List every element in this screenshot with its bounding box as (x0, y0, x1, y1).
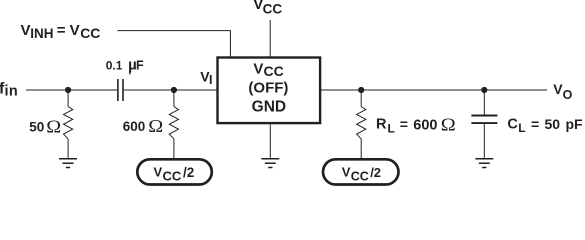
resistor R2 600 ohm zigzag (169, 107, 178, 139)
svg-text:V: V (253, 60, 263, 77)
svg-text:=: = (400, 116, 408, 132)
wire: output from box to V_O (321, 89, 547, 91)
wire: input from f_in to capacitor C1 (26, 89, 117, 91)
svg-text:Ω: Ω (441, 116, 456, 135)
node: junction dot at 600 ohm tap (171, 87, 177, 93)
node: junction dot at C_L tap (481, 87, 487, 93)
wire: down to resistor R1 (50 ohm) (67, 90, 69, 107)
op box U1 (switch, OFF) (218, 58, 321, 124)
wire: down to capacitor C_L (483, 90, 485, 115)
svg-text:V: V (342, 165, 351, 180)
svg-text:GND: GND (252, 98, 286, 115)
svg-text:C: C (507, 116, 518, 132)
svg-text:L: L (388, 121, 395, 135)
svg-text:Ω: Ω (148, 117, 163, 136)
svg-text:F: F (136, 59, 144, 73)
svg-text:pF: pF (566, 116, 584, 132)
svg-text:0.1: 0.1 (106, 59, 123, 73)
wire: V_INH to box top (118, 31, 231, 57)
svg-text:O: O (563, 88, 573, 102)
svg-text:CC: CC (263, 1, 283, 16)
wire: capacitor C_L to ground (483, 124, 485, 158)
wire: down to resistor R2 (600 ohm) (173, 90, 175, 107)
source oval VCC/2 (right) (323, 159, 399, 184)
capacitor C1 0.1uF plates (117, 79, 119, 101)
svg-text:L: L (518, 121, 525, 135)
source oval VCC/2 (left) (137, 159, 212, 184)
svg-text:V: V (21, 22, 31, 39)
wire: down to resistor R_L (360, 90, 362, 107)
wire: resistor R1 to ground (67, 139, 69, 158)
svg-text:50: 50 (29, 119, 44, 134)
ground under C_L (475, 159, 493, 168)
svg-text:50: 50 (545, 116, 561, 132)
wire: box GND pin down (269, 124, 271, 158)
resistor R1 50 ohm zigzag (64, 107, 73, 139)
svg-text:(OFF): (OFF) (248, 79, 288, 96)
svg-text:in: in (5, 83, 19, 99)
svg-text:/2: /2 (183, 165, 194, 180)
svg-text:600: 600 (413, 118, 437, 134)
ground under R1 (59, 159, 77, 168)
svg-text:/2: /2 (370, 165, 381, 180)
svg-text:CC: CC (80, 25, 100, 41)
ground under box (261, 159, 279, 168)
node: junction dot at R_L tap (358, 87, 364, 93)
svg-text:CC: CC (163, 169, 182, 184)
wire: Vcc supply down to box top (269, 20, 271, 56)
svg-text:=: = (57, 22, 66, 39)
resistor R_L zigzag (357, 107, 366, 139)
svg-text:V: V (154, 165, 163, 180)
svg-text:=: = (531, 116, 539, 132)
svg-text:INH: INH (30, 26, 53, 41)
node: junction dot at 50 ohm tap (65, 87, 71, 93)
wire: resistor R2 to Vcc/2 source (173, 139, 175, 159)
svg-text:I: I (209, 73, 212, 87)
svg-text:Ω: Ω (46, 118, 61, 137)
svg-text:600: 600 (123, 119, 146, 134)
svg-text:CC: CC (264, 63, 284, 79)
wire: resistor R_L to Vcc/2 source (360, 139, 362, 159)
svg-text:V: V (70, 22, 80, 39)
svg-text:CC: CC (351, 170, 369, 184)
capacitor C_L plates (471, 115, 497, 117)
svg-text:R: R (376, 117, 387, 133)
wire: capacitor C1 to box input (124, 89, 217, 91)
